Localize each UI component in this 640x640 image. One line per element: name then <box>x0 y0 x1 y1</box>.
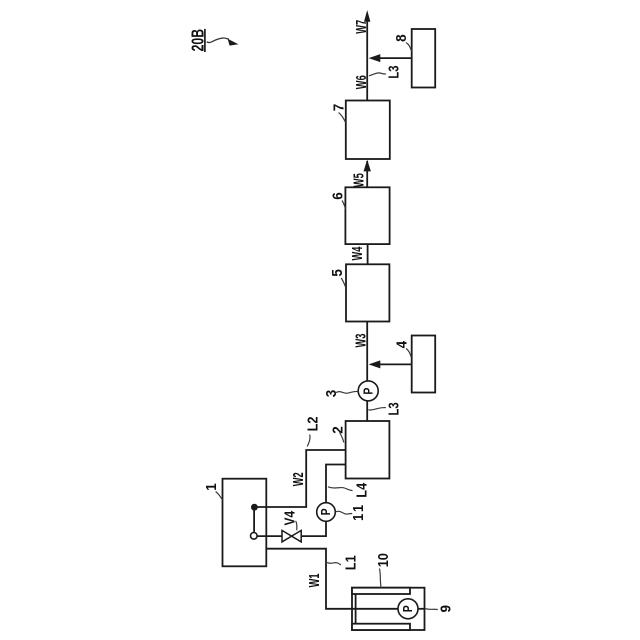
svg-text:5: 5 <box>330 269 347 277</box>
unit 10 top plate <box>352 588 410 594</box>
svg-text:L3: L3 <box>385 402 402 415</box>
leader V4 <box>296 521 297 530</box>
leader 7 <box>339 113 346 123</box>
svg-text:V4: V4 <box>281 510 298 525</box>
leader 5 <box>341 278 345 287</box>
node dot in tank 1 <box>251 504 258 511</box>
leader L1 <box>327 563 341 565</box>
arrowhead W5 <box>364 160 371 172</box>
wire suction into pump 9 <box>352 608 398 610</box>
filtration unit 10 outer shell <box>352 588 425 630</box>
svg-text:6: 6 <box>330 192 347 200</box>
unit 10 bottom plate <box>352 624 410 630</box>
svg-text:L4: L4 <box>352 483 369 498</box>
svg-text:2: 2 <box>330 426 347 434</box>
leader L3 upper <box>369 73 386 76</box>
svg-text:P: P <box>401 605 415 612</box>
unit 10 inner membrane line <box>355 594 357 624</box>
wire W3 <box>366 322 368 365</box>
underline of 20B <box>204 29 206 52</box>
wire L3 feed from tank 8 <box>380 57 412 59</box>
treatment unit 6 <box>345 187 389 244</box>
leader arrow from 20B <box>207 38 229 43</box>
treatment unit 2 <box>346 421 390 479</box>
valve V4 <box>282 530 292 542</box>
wire L3 pump3 to unit 2 <box>366 400 368 421</box>
leader 4 <box>406 349 411 357</box>
pump 11 <box>317 503 336 522</box>
leader 8 <box>406 43 412 52</box>
tank 4 <box>412 336 436 393</box>
leader 3 <box>336 391 358 393</box>
svg-text:7: 7 <box>331 104 348 112</box>
wire W7 (main outlet line top) <box>366 20 368 59</box>
pump 3 <box>358 381 378 401</box>
svg-text:W5: W5 <box>350 173 367 187</box>
wire W5 <box>366 161 368 187</box>
leader 1 <box>216 492 223 501</box>
svg-text:W2: W2 <box>290 472 307 486</box>
svg-text:9: 9 <box>438 605 455 613</box>
leader 11 <box>336 511 353 514</box>
wire W2 from tank1 dot to unit 2 <box>254 450 345 507</box>
leader 10 <box>379 569 381 588</box>
svg-text:11: 11 <box>349 502 366 521</box>
wire valve to pump 11 <box>301 521 326 536</box>
node open circle in tank 1 <box>251 533 258 540</box>
svg-text:L3: L3 <box>385 65 402 78</box>
svg-text:L1: L1 <box>341 555 358 570</box>
arrowhead from tank 8 into main line <box>369 54 381 62</box>
leader L3 lower <box>368 408 386 410</box>
raw water tank 1 <box>223 479 267 567</box>
svg-text:3: 3 <box>323 390 340 398</box>
svg-text:W7: W7 <box>353 20 370 34</box>
svg-text:P: P <box>319 508 333 515</box>
leader 9 <box>425 609 438 610</box>
arrowhead from tank 4 into main line <box>369 360 381 368</box>
svg-text:4: 4 <box>394 341 411 349</box>
svg-text:W6: W6 <box>353 75 370 89</box>
wire pump3 to junction <box>366 364 368 382</box>
treatment unit 7 <box>346 101 390 160</box>
svg-text:W4: W4 <box>349 247 366 261</box>
svg-text:P: P <box>361 388 375 395</box>
wire W6 <box>366 58 368 100</box>
leader L4 <box>328 487 353 491</box>
leader L2 <box>307 435 310 447</box>
leader 6 <box>342 201 346 210</box>
svg-text:10: 10 <box>374 553 391 567</box>
svg-text:L2: L2 <box>304 416 321 431</box>
arrowhead of 20B leader <box>228 39 239 46</box>
svg-text:W3: W3 <box>352 334 369 348</box>
wire feed from tank 4 <box>380 363 412 365</box>
wire open circle to valve V4 <box>257 535 282 537</box>
wire dot to open circle <box>253 510 255 533</box>
wire W1 tank1 to pump 9 <box>266 549 352 609</box>
svg-text:W1: W1 <box>306 573 323 587</box>
wire pump 9 outlet <box>418 608 425 610</box>
wire L4 pump 11 to unit 2 <box>326 465 346 503</box>
arrowhead W7 <box>364 10 370 22</box>
svg-text:1: 1 <box>203 483 220 491</box>
wire W4 <box>367 244 369 264</box>
pump 9 <box>398 599 418 619</box>
treatment unit 5 <box>346 264 389 321</box>
tank 8 <box>412 29 436 88</box>
svg-text:8: 8 <box>393 34 410 42</box>
leader 2 <box>340 433 344 443</box>
